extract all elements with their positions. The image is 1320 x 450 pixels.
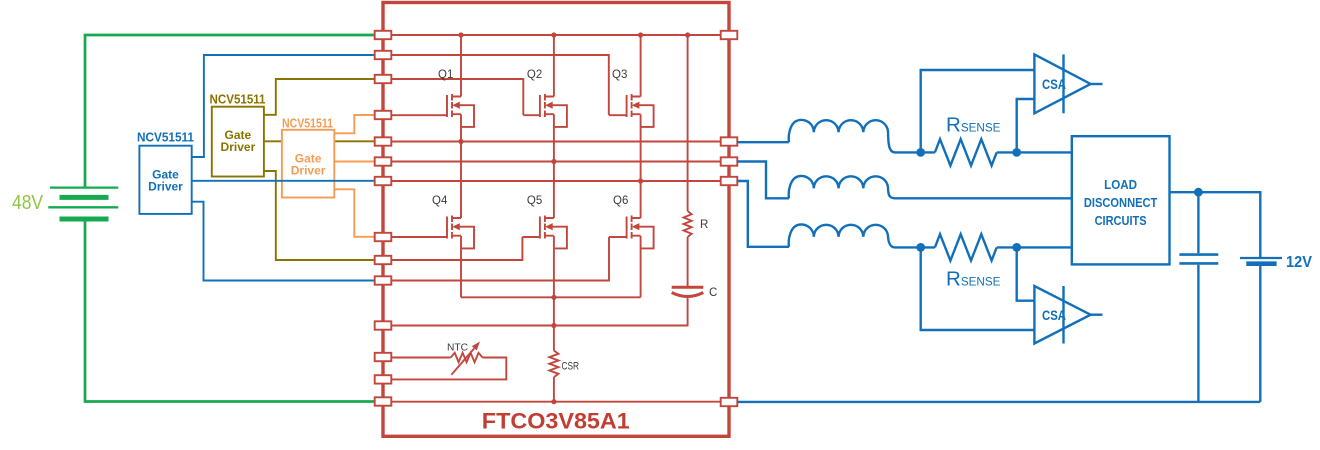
svg-text:12V: 12V <box>1286 254 1312 271</box>
svg-text:Q3: Q3 <box>612 69 627 81</box>
svg-text:Driver: Driver <box>291 164 326 178</box>
svg-text:Q6: Q6 <box>613 195 628 207</box>
svg-text:CSA: CSA <box>1042 307 1066 323</box>
svg-text:48V: 48V <box>12 192 44 214</box>
svg-text:C: C <box>709 287 717 299</box>
svg-text:NCV51511: NCV51511 <box>282 117 333 131</box>
svg-text:NCV51511: NCV51511 <box>137 130 194 145</box>
svg-text:Driver: Driver <box>148 180 183 194</box>
svg-text:R: R <box>700 219 708 231</box>
svg-text:Driver: Driver <box>221 140 256 154</box>
svg-text:Q2: Q2 <box>527 69 542 81</box>
svg-text:LOAD: LOAD <box>1104 177 1137 192</box>
svg-text:CSA: CSA <box>1042 76 1066 92</box>
svg-text:DISCONNECT: DISCONNECT <box>1084 195 1158 210</box>
svg-text:Q5: Q5 <box>527 195 542 207</box>
svg-text:CSR: CSR <box>562 360 580 372</box>
svg-text:FTCO3V85A1: FTCO3V85A1 <box>482 409 630 434</box>
svg-text:Q1: Q1 <box>438 69 453 81</box>
svg-text:NCV51511: NCV51511 <box>210 92 266 107</box>
svg-text:NTC: NTC <box>447 342 468 354</box>
svg-text:Q4: Q4 <box>432 195 448 207</box>
svg-text:CIRCUITS: CIRCUITS <box>1095 213 1147 228</box>
